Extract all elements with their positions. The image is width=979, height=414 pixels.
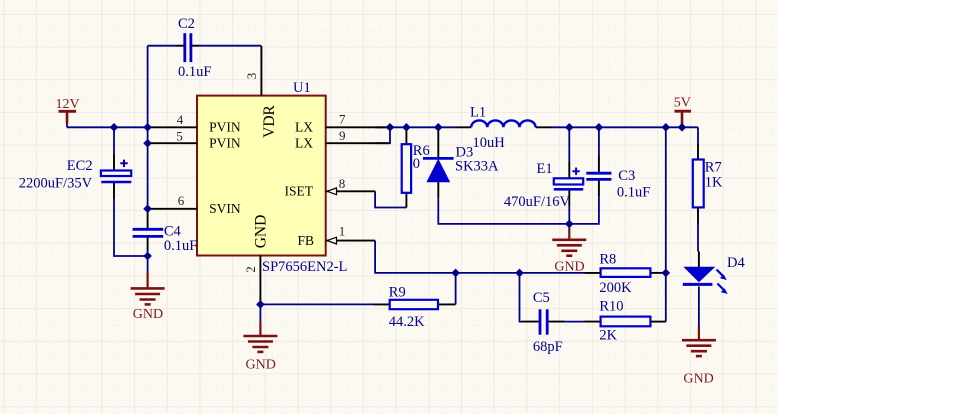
junction node E1 bottom rail [565, 220, 574, 229]
wire E1 bottom lead [568, 190, 570, 206]
junction node pin2/R9 [256, 300, 265, 309]
capacitor C4 [133, 224, 198, 254]
svg-text:LX: LX [295, 136, 313, 151]
wire EC2 top lead [113, 154, 115, 171]
resistor R10 [599, 298, 650, 343]
svg-text:12V: 12V [56, 97, 80, 112]
wire C3 riser [598, 127, 600, 155]
svg-text:U1: U1 [293, 80, 311, 96]
capacitor C3 [586, 168, 650, 200]
wire R8 left lead [584, 272, 601, 274]
junction node C4/EC2 gnd [143, 252, 152, 261]
svg-text:C5: C5 [533, 290, 550, 306]
svg-text:SP7656EN2-L: SP7656EN2-L [262, 259, 347, 275]
wire LX run to L1 [375, 126, 455, 128]
svg-text:PVIN: PVIN [209, 136, 241, 151]
svg-text:2: 2 [243, 266, 258, 273]
resistor R8 [599, 252, 650, 297]
wire R7 top riser [697, 127, 699, 143]
svg-text:200K: 200K [599, 280, 632, 296]
wire D3 top lead [437, 127, 439, 158]
wire C2 left lead [176, 45, 184, 47]
wire EC2 bottom lead [113, 183, 115, 199]
capacitor E1 electrolytic [504, 161, 583, 210]
svg-text:SVIN: SVIN [209, 201, 241, 216]
wire ISET run [375, 191, 406, 207]
junction node 12V/EC2 [110, 123, 119, 132]
ground GND C under E1 [552, 229, 586, 274]
wire R6 top lead [405, 127, 407, 144]
svg-text:0.1uF: 0.1uF [164, 238, 197, 254]
inductor L1 [470, 105, 536, 152]
svg-text:R10: R10 [599, 298, 623, 314]
svg-text:ISET: ISET [285, 184, 314, 199]
U1 pin 7 LX [326, 111, 388, 127]
wire C3 bottom lead [598, 180, 600, 196]
wire R9 left lead [374, 303, 390, 305]
wire R8 right lead [650, 272, 665, 274]
wire C2 left riser [147, 46, 149, 128]
svg-text:E1: E1 [537, 161, 553, 177]
power port 5V [674, 96, 691, 124]
ground GND B under pin2 [243, 322, 277, 373]
U1 pin 6 SVIN [148, 193, 197, 209]
svg-text:LX: LX [295, 120, 313, 135]
wire L1 to 5V corner [552, 126, 698, 128]
svg-text:4: 4 [177, 112, 184, 127]
wire 12V stem lower [66, 124, 68, 128]
wire output riser x666 [665, 127, 667, 321]
svg-text:GND: GND [133, 307, 163, 322]
svg-text:7: 7 [339, 111, 346, 126]
svg-text:470uF/16V: 470uF/16V [504, 194, 571, 210]
svg-text:8: 8 [339, 176, 346, 191]
wire C2 top left [148, 45, 176, 47]
wire C5 to R10 [565, 321, 584, 323]
wire D4 top lead [698, 252, 700, 268]
wire R10 right corner [650, 321, 665, 323]
svg-text:44.2K: 44.2K [389, 314, 425, 330]
svg-text:C3: C3 [618, 168, 635, 184]
wire C4 bottom lead [147, 237, 149, 250]
wire GND C stem upper [568, 224, 570, 229]
junction node 12V/C2 riser [143, 123, 152, 132]
svg-text:5: 5 [176, 128, 183, 143]
wire C5 right lead [549, 321, 566, 323]
wire C3 top lead [598, 156, 600, 173]
capacitor EC2 electrolytic [19, 158, 132, 191]
svg-text:3: 3 [244, 73, 259, 80]
svg-text:0.1uF: 0.1uF [178, 64, 211, 80]
svg-text:2K: 2K [599, 327, 617, 343]
junction node C3 top [595, 123, 604, 132]
svg-text:2200uF/35V: 2200uF/35V [19, 176, 93, 192]
svg-text:PVIN: PVIN [209, 120, 241, 135]
wire GND B stem upper [259, 304, 261, 322]
svg-text:9: 9 [339, 128, 346, 143]
wire left bus down to C4 [147, 127, 149, 212]
svg-text:FB: FB [297, 233, 314, 248]
ground GND A bottom-left [131, 272, 165, 322]
svg-text:0.1uF: 0.1uF [617, 184, 650, 200]
U1 pin 9 LX [326, 128, 389, 143]
wire D3 bottom lead [437, 182, 439, 199]
svg-text:L1: L1 [470, 105, 486, 121]
svg-text:0: 0 [413, 156, 420, 172]
junction node output riser top [662, 123, 671, 132]
wire R7 top lead [697, 144, 699, 160]
wire R10 left lead [584, 321, 601, 323]
svg-text:D4: D4 [727, 255, 745, 271]
wire R7 to D4 [697, 224, 699, 252]
junction node E1 top [565, 123, 574, 132]
ground GND D under D4 [682, 326, 716, 387]
wire E1 top lead [568, 162, 570, 178]
wire L1 right lead [536, 126, 552, 128]
capacitor C5 [533, 290, 563, 355]
U1 pin 5 PVIN [148, 128, 197, 143]
svg-text:EC2: EC2 [67, 158, 93, 174]
capacitor C2 [178, 16, 211, 80]
svg-text:5V: 5V [674, 96, 691, 111]
wire C5 branch [520, 273, 523, 322]
wire R6 bottom lead [405, 193, 407, 208]
junction node R6 top [402, 123, 411, 132]
U1 pin 4 PVIN [148, 112, 197, 128]
U1 pin 1 FB [326, 223, 375, 244]
wire bottom rail [438, 196, 599, 224]
wire C2 right lead [192, 45, 199, 47]
junction node R9/FB [451, 269, 460, 278]
U1 pin 2 GND [243, 256, 260, 305]
resistor R7 [693, 159, 723, 207]
wire L1 left lead [455, 126, 471, 128]
svg-text:R8: R8 [599, 252, 616, 268]
wire E1 top [568, 127, 570, 162]
junction node 5V stem [678, 123, 687, 132]
wire EC2 top branch [113, 127, 115, 154]
wire E1 bottom to rail [568, 207, 570, 224]
svg-text:1: 1 [339, 223, 346, 238]
wire C5 left lead [522, 321, 539, 323]
wire R9 right riser [455, 273, 457, 305]
wire GND A stem upper [147, 256, 149, 272]
LED D4 [683, 255, 746, 294]
wire 12V rail to pin4 [67, 126, 148, 128]
op-amp U1 body SP7656EN2-L [197, 96, 326, 256]
junction node pin6 bus [143, 205, 152, 214]
svg-text:68pF: 68pF [533, 339, 563, 355]
junction node C5/FB [515, 269, 524, 278]
svg-text:SK33A: SK33A [455, 159, 499, 175]
wire D4 to GND D [698, 287, 700, 327]
svg-text:GND: GND [253, 215, 270, 249]
junction node LX pin9 [386, 123, 395, 132]
resistor R6 [402, 143, 430, 193]
wire R9 run [260, 303, 373, 305]
wire C4 top lead [147, 212, 149, 228]
svg-text:C2: C2 [178, 16, 195, 32]
svg-text:VDR: VDR [261, 104, 278, 137]
svg-text:10uH: 10uH [473, 135, 506, 151]
junction node D3 top [434, 123, 443, 132]
svg-text:6: 6 [178, 193, 185, 208]
svg-text:GND: GND [246, 358, 276, 373]
wire EC2 bottom to GND corner [114, 199, 148, 256]
wire R9 right lead [438, 303, 456, 305]
wire pin9 riser [375, 127, 390, 143]
svg-text:R9: R9 [389, 285, 406, 301]
U1 pin 3 VDR [244, 46, 261, 96]
wire R7 bottom lead [697, 207, 699, 223]
wire C4 bottom to junction [147, 250, 149, 256]
diode D3 [423, 145, 499, 182]
junction node pin5 bus [143, 139, 152, 148]
power port 12V [56, 97, 80, 124]
wire 5V stem lower [681, 124, 683, 127]
svg-text:R7: R7 [705, 159, 722, 175]
svg-text:1K: 1K [705, 175, 723, 191]
wire C2 top right to pin3 [199, 45, 261, 47]
U1 pin 8 ISET [326, 176, 375, 195]
svg-text:GND: GND [554, 259, 584, 274]
wire FB run [375, 241, 584, 273]
resistor R9 [389, 285, 438, 330]
junction node R8 right [662, 269, 671, 278]
svg-text:GND: GND [683, 372, 713, 387]
